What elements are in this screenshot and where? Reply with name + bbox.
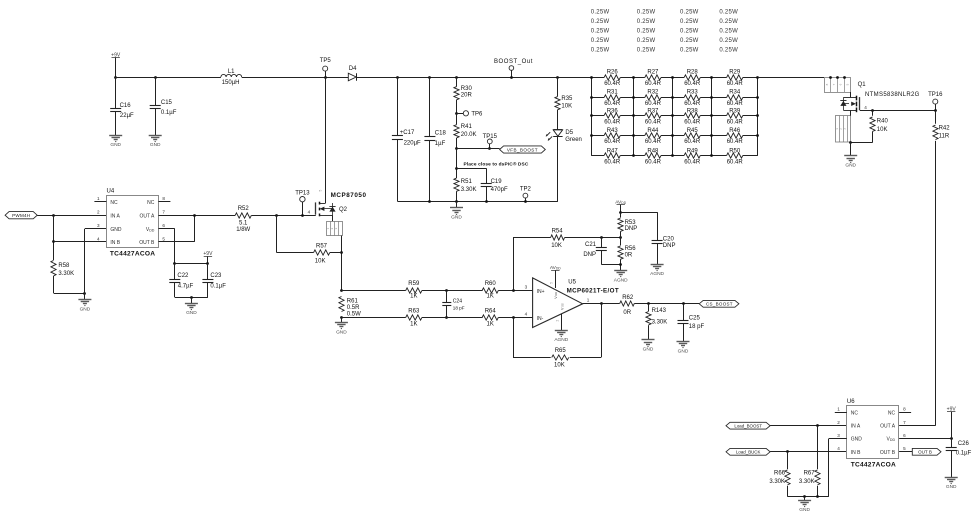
wire R42 down to U6 OUT A	[935, 141, 937, 426]
ground GND feedback network	[456, 201, 458, 208]
svg-text:TP5: TP5	[320, 58, 332, 64]
node shunt bottom junction	[340, 316, 343, 319]
svg-text:OUT B: OUT B	[880, 450, 896, 456]
resistor R65 10K	[552, 355, 569, 360]
ground AGND under U5	[555, 330, 568, 332]
capacitor C19 470pF	[486, 168, 488, 183]
svg-text:0.5R: 0.5R	[347, 305, 360, 311]
svg-text:4: 4	[837, 446, 840, 451]
svg-text:0R: 0R	[625, 252, 633, 258]
svg-text:R34: R34	[729, 90, 741, 96]
svg-text:0R: 0R	[623, 310, 631, 316]
ground GND under U4	[84, 293, 86, 300]
net tag Load_BOOST	[726, 422, 770, 429]
svg-text:NTMS5838NLR2G: NTMS5838NLR2G	[865, 92, 920, 98]
ground GND under R143	[642, 339, 655, 341]
resistor R27 60.4R	[633, 77, 645, 79]
wire +9V rail to L1	[116, 77, 221, 79]
svg-text:R59: R59	[408, 281, 420, 287]
wire U4 VDD supply	[158, 228, 174, 230]
resistor R33 60.4R	[673, 97, 684, 99]
resistor R50 60.4R	[712, 155, 727, 157]
svg-text:AGND: AGND	[554, 337, 568, 343]
ground GND under C16	[109, 135, 122, 137]
op-amp driver U4 TC4427ACOA body	[107, 196, 159, 248]
capacitor C23 0.1uF	[207, 264, 209, 280]
net tag CS_BOOST output	[699, 300, 739, 307]
resistor R58 3.30K	[51, 260, 56, 276]
wire R52 to Q2 gate	[251, 215, 315, 217]
wire Q2 drain to rail	[325, 77, 327, 203]
node TP16 junction	[934, 109, 937, 112]
net tag OUT B output	[899, 451, 912, 453]
capacitor C25 18pF	[683, 304, 685, 321]
body diode of Q2	[329, 207, 335, 212]
capacitor C26 0.1uF	[951, 439, 953, 448]
node shunt top junction	[340, 289, 343, 292]
resistor R67 3.30K	[817, 426, 819, 469]
svg-text:R38: R38	[687, 108, 699, 114]
svg-text:R67: R67	[804, 470, 816, 476]
net tag Load_BUCK	[726, 448, 770, 455]
svg-text:5: 5	[549, 282, 553, 284]
svg-text:IN B: IN B	[110, 240, 120, 246]
svg-text:R30: R30	[461, 86, 473, 92]
node R143 junction	[647, 302, 650, 305]
svg-text:R43: R43	[607, 128, 619, 134]
svg-text:10K: 10K	[561, 104, 572, 110]
wire U4 GND pin	[85, 228, 107, 230]
svg-text:+C17: +C17	[400, 130, 415, 136]
svg-text:Q2: Q2	[339, 207, 348, 213]
svg-text:MCP87050: MCP87050	[331, 192, 367, 199]
resistor R46 60.4R	[712, 135, 727, 137]
svg-text:6: 6	[162, 223, 165, 228]
node C25 junction	[682, 302, 685, 305]
svg-text:1K: 1K	[487, 322, 494, 328]
svg-text:IN+: IN+	[537, 289, 545, 295]
ground GND under shunt	[341, 318, 343, 323]
svg-text:8: 8	[162, 196, 165, 201]
resistor R48 60.4R	[633, 155, 645, 157]
node R35 tap	[556, 76, 559, 79]
svg-text:GND: GND	[851, 437, 863, 443]
svg-text:0.25W: 0.25W	[719, 38, 738, 44]
node C17 tap	[396, 76, 399, 79]
svg-text:TC4427ACOA: TC4427ACOA	[110, 250, 155, 257]
svg-text:0.25W: 0.25W	[591, 38, 610, 44]
capacitor C18 1uF	[429, 77, 431, 136]
svg-text:R45: R45	[687, 128, 699, 134]
svg-text:60.4R: 60.4R	[604, 139, 621, 145]
svg-text:0.25W: 0.25W	[637, 9, 656, 15]
svg-text:2: 2	[555, 319, 559, 321]
node C23 junction	[206, 262, 209, 265]
resistor R36 60.4R	[591, 115, 604, 117]
svg-text:R48: R48	[647, 148, 659, 154]
resistor R63 1K	[406, 315, 422, 320]
resistor R28 60.4R	[673, 77, 684, 79]
wire Load_BUCK to U6 IN B	[770, 451, 847, 453]
resistor R66 3.30K	[787, 452, 789, 469]
svg-text:R143: R143	[652, 308, 667, 314]
svg-text:0.5W: 0.5W	[347, 311, 361, 317]
svg-text:8: 8	[903, 407, 906, 412]
wire resistor bank vertical buses	[591, 77, 593, 156]
wire Q2 source down	[341, 236, 343, 291]
svg-text:5: 5	[162, 236, 165, 241]
svg-text:OUT B: OUT B	[139, 240, 155, 246]
svg-text:NC: NC	[110, 200, 118, 206]
svg-text:5.1: 5.1	[239, 220, 248, 226]
resistor R29 60.4R	[712, 77, 727, 79]
wire Q1 drain	[850, 92, 852, 97]
svg-text:R53: R53	[625, 220, 637, 226]
svg-text:R28: R28	[687, 70, 699, 76]
svg-text:R61: R61	[347, 299, 359, 305]
svg-text:10K: 10K	[551, 243, 562, 249]
resistor R42 11R	[935, 110, 937, 124]
svg-text:R63: R63	[408, 309, 420, 315]
svg-text:60.4R: 60.4R	[727, 160, 744, 166]
svg-text:0.25W: 0.25W	[680, 28, 699, 34]
resistor R51 3.30K	[454, 178, 459, 191]
svg-text:OUT A: OUT A	[139, 213, 155, 219]
svg-text:60.4R: 60.4R	[684, 120, 701, 126]
wire U4 OUT B parallel tie	[158, 241, 194, 243]
resistor R35 10K	[557, 77, 559, 97]
svg-text:R44: R44	[647, 128, 659, 134]
node TP5 / Q2 drain junction	[324, 76, 327, 79]
ground GND under C26	[945, 477, 958, 479]
svg-text:3.30K: 3.30K	[769, 479, 785, 485]
svg-text:0.1µF: 0.1µF	[210, 284, 226, 290]
svg-text:4: 4	[308, 210, 311, 215]
node PWM4H junction	[52, 214, 55, 217]
LED D5 Green	[553, 129, 562, 131]
ground GND decoupling	[191, 297, 193, 303]
node TP6 junction	[455, 112, 458, 115]
Q2 source and body	[319, 215, 332, 217]
resistor R54 10K	[551, 235, 565, 240]
resistor R57 10K	[276, 215, 278, 252]
svg-text:R37: R37	[647, 108, 659, 114]
node VFB junction	[455, 147, 458, 150]
svg-text:20.0K: 20.0K	[461, 132, 477, 138]
wire R54 feedback top	[513, 237, 515, 291]
ground GND load resistors	[804, 497, 806, 501]
svg-text:60.4R: 60.4R	[645, 160, 662, 166]
svg-text:0.25W: 0.25W	[591, 47, 610, 53]
svg-text:TC4427ACOA: TC4427ACOA	[851, 462, 896, 469]
svg-text:0.25W: 0.25W	[680, 9, 699, 15]
svg-text:60.4R: 60.4R	[645, 120, 662, 126]
svg-text:60.4R: 60.4R	[604, 120, 621, 126]
wire U6 VDD to +9V	[899, 438, 951, 440]
transistor Q1 source pin box (pins 1-3)	[836, 116, 851, 143]
node R53/R56/C21 junction	[619, 236, 622, 239]
svg-text:OUT A: OUT A	[880, 424, 896, 430]
wire bank to Q1	[758, 77, 824, 79]
svg-text:R41: R41	[461, 124, 473, 130]
svg-text:1: 1	[837, 407, 840, 412]
svg-text:R52: R52	[238, 206, 250, 212]
resistor R32 60.4R	[633, 97, 645, 99]
svg-text:R58: R58	[58, 263, 70, 269]
node decoupling ground junction	[190, 296, 193, 299]
svg-text:7: 7	[162, 210, 165, 215]
resistor R31 60.4R	[591, 97, 604, 99]
resistor R64 1K	[482, 315, 498, 320]
svg-text:R46: R46	[729, 128, 741, 134]
svg-text:TP6: TP6	[471, 111, 483, 117]
wire R65 feedback	[513, 318, 515, 358]
capacitor C20 DNP	[652, 240, 663, 242]
svg-text:NC: NC	[851, 410, 859, 416]
node IN- junction	[512, 316, 515, 319]
svg-text:R35: R35	[561, 96, 573, 102]
svg-text:1K: 1K	[410, 322, 417, 328]
svg-text:DD: DD	[554, 292, 558, 296]
resistor R38 60.4R	[673, 115, 684, 117]
capacitor C22 4.7uF	[174, 264, 176, 280]
resistor R49 60.4R	[673, 155, 684, 157]
wire load resistor ground bus	[788, 496, 829, 498]
svg-text:Q1: Q1	[858, 82, 867, 88]
resistor R52 5.1 1/8W	[235, 213, 251, 218]
svg-text:0.25W: 0.25W	[680, 47, 699, 53]
svg-text:60.4R: 60.4R	[604, 81, 621, 87]
svg-text:DNP: DNP	[663, 243, 676, 249]
svg-text:DNP: DNP	[583, 252, 596, 258]
svg-text:R56: R56	[625, 246, 637, 252]
wire U6 GND pin path	[829, 438, 847, 440]
resistor R143 3.30K	[648, 304, 650, 311]
svg-text:0.25W: 0.25W	[591, 19, 610, 25]
svg-text:60.4R: 60.4R	[645, 139, 662, 145]
svg-text:470pF: 470pF	[491, 187, 508, 193]
svg-text:60.4R: 60.4R	[684, 160, 701, 166]
resistor R26 60.4R	[591, 77, 604, 79]
svg-text:L1: L1	[228, 69, 235, 75]
svg-text:Place close to dsPIC® DSC: Place close to dsPIC® DSC	[464, 161, 529, 168]
svg-text:R29: R29	[729, 70, 741, 76]
resistor R59 1K	[406, 288, 422, 293]
body diode of Q1	[840, 101, 846, 106]
wire VDD to +9V	[175, 263, 208, 265]
svg-text:3.30K: 3.30K	[652, 319, 668, 325]
svg-text:0.25W: 0.25W	[680, 38, 699, 44]
svg-text:R64: R64	[485, 309, 497, 315]
node AVDD branch junction	[619, 211, 622, 214]
svg-text:R57: R57	[316, 244, 328, 250]
svg-text:0.25W: 0.25W	[637, 19, 656, 25]
svg-text:VDD: VDD	[887, 437, 896, 443]
wire sense line bottom	[341, 317, 405, 319]
svg-text:C16: C16	[120, 103, 132, 109]
svg-text:GND: GND	[186, 310, 197, 316]
svg-text:5: 5	[903, 446, 906, 451]
transistor Q1 drain pin box (pins 5-8)	[825, 78, 851, 93]
node ground bus junctions	[803, 495, 806, 498]
svg-text:C24: C24	[453, 299, 462, 305]
svg-text:IN-: IN-	[537, 316, 544, 322]
svg-text:GND: GND	[678, 348, 689, 354]
svg-text:SS: SS	[560, 303, 564, 307]
node C24 top junction	[445, 289, 448, 292]
svg-text:1µF: 1µF	[435, 141, 446, 147]
svg-text:60.4R: 60.4R	[604, 160, 621, 166]
node R57 source junction	[340, 251, 343, 254]
wire Load_BOOST to U6 IN A	[770, 425, 847, 427]
svg-text:0.1µF: 0.1µF	[956, 451, 972, 457]
wire to IN B and R58	[53, 215, 55, 260]
svg-text:1K: 1K	[410, 293, 417, 299]
svg-text:GND: GND	[643, 347, 654, 353]
svg-text:R39: R39	[729, 108, 741, 114]
U6 pin 1 NC	[835, 412, 847, 414]
capacitor C17 220uF electrolytic	[397, 77, 399, 136]
svg-text:10K: 10K	[315, 258, 326, 264]
svg-text:GND: GND	[799, 507, 810, 513]
svg-text:10K: 10K	[877, 127, 888, 133]
svg-text:TP2: TP2	[520, 187, 532, 193]
U4 pin 1 NC	[94, 201, 106, 203]
node R30 tap	[455, 76, 458, 79]
svg-text:C23: C23	[210, 273, 222, 279]
svg-text:4: 4	[525, 311, 528, 316]
node C15 tap	[154, 76, 157, 79]
svg-text:C22: C22	[177, 273, 189, 279]
svg-text:60.4R: 60.4R	[604, 101, 621, 107]
svg-text:22µF: 22µF	[120, 113, 134, 119]
svg-text:60.4R: 60.4R	[727, 120, 744, 126]
svg-text:Green: Green	[565, 137, 582, 143]
svg-text:60.4R: 60.4R	[727, 101, 744, 107]
wire U6 OUT A up to R42	[899, 425, 935, 427]
svg-text:R60: R60	[485, 281, 497, 287]
svg-text:6: 6	[903, 433, 906, 438]
svg-text:2: 2	[97, 210, 100, 215]
svg-text:NC: NC	[888, 410, 896, 416]
node R57 branch junction	[275, 214, 278, 217]
svg-text:GND: GND	[110, 227, 122, 233]
svg-text:0.25W: 0.25W	[637, 47, 656, 53]
wire VFB to tag	[457, 148, 500, 150]
resistor R60 1K	[482, 288, 498, 293]
U6 pin 8 NC	[899, 412, 911, 414]
svg-text:GND: GND	[110, 142, 121, 148]
node IN B junction	[52, 240, 55, 243]
node R67 branch	[816, 424, 819, 427]
svg-text:4: 4	[97, 236, 100, 241]
svg-text:R49: R49	[687, 148, 699, 154]
ground GND under C25	[677, 341, 690, 343]
resistor R62 0R	[601, 303, 619, 305]
svg-text:GND: GND	[451, 215, 462, 221]
svg-text:R42: R42	[939, 125, 951, 131]
svg-text:OUT B: OUT B	[918, 450, 932, 455]
svg-text:1/8W: 1/8W	[236, 227, 250, 233]
svg-text:C18: C18	[435, 131, 447, 137]
resistor R47 60.4R	[591, 155, 604, 157]
net tag PWM4H input	[5, 212, 37, 219]
svg-text:R33: R33	[687, 90, 699, 96]
svg-text:4: 4	[864, 105, 867, 110]
resistor R41 20.0K	[456, 113, 458, 124]
svg-text:D4: D4	[349, 66, 357, 72]
driver U6 TC4427ACOA body	[847, 406, 899, 459]
svg-text:GND: GND	[845, 163, 856, 169]
svg-text:R31: R31	[607, 90, 619, 96]
node Q1 source ground junction	[849, 141, 852, 144]
test point TP6	[457, 113, 464, 115]
resistor R43 60.4R	[591, 135, 604, 137]
svg-text:0.1µF: 0.1µF	[161, 110, 177, 116]
svg-text:VDD: VDD	[146, 227, 155, 233]
svg-text:150µH: 150µH	[222, 80, 240, 86]
svg-text:C19: C19	[491, 179, 503, 185]
U4 pin 8 NC	[158, 201, 170, 203]
node U4 ground junction	[83, 292, 86, 295]
op-amp U5 MCP6021T-E/OT	[533, 278, 583, 328]
svg-text:TP13: TP13	[295, 190, 310, 196]
svg-text:CS_BOOST: CS_BOOST	[706, 302, 733, 307]
svg-text:R54: R54	[552, 228, 564, 234]
resistor R56 0R	[620, 237, 622, 245]
svg-text:1: 1	[97, 196, 100, 201]
svg-text:4.7µF: 4.7µF	[178, 284, 194, 290]
svg-text:Load_BOOST: Load_BOOST	[734, 424, 762, 429]
svg-text:GND: GND	[80, 306, 91, 312]
svg-text:GND: GND	[150, 142, 161, 148]
svg-text:3: 3	[837, 433, 840, 438]
svg-text:R40: R40	[877, 119, 889, 125]
resistor R40 10K	[872, 110, 874, 116]
svg-text:R32: R32	[647, 90, 659, 96]
resistor R45 60.4R	[673, 135, 684, 137]
svg-text:BOOST_Out: BOOST_Out	[494, 59, 533, 65]
svg-text:GND: GND	[946, 484, 957, 490]
svg-text:10K: 10K	[554, 362, 565, 368]
svg-text:0.25W: 0.25W	[591, 9, 610, 15]
svg-text:3.30K: 3.30K	[799, 479, 815, 485]
resistor R44 60.4R	[633, 135, 645, 137]
capacitor C21 DNP	[600, 236, 603, 239]
svg-text:C26: C26	[958, 441, 970, 447]
node +9V rail junction	[114, 76, 117, 79]
node R40 tap	[871, 109, 874, 112]
wire U5 output	[583, 303, 602, 305]
svg-text:R66: R66	[774, 470, 786, 476]
wire L1 to D4	[242, 77, 349, 79]
svg-text:R36: R36	[607, 108, 619, 114]
svg-text:60.4R: 60.4R	[727, 139, 744, 145]
svg-text:R50: R50	[729, 148, 741, 154]
resistor R61 0.5R 0.5W shunt	[339, 297, 344, 312]
svg-text:220µF: 220µF	[404, 141, 421, 147]
svg-text:U5: U5	[568, 279, 576, 285]
svg-text:IN A: IN A	[110, 213, 120, 219]
svg-text:0.25W: 0.25W	[719, 9, 738, 15]
svg-text:Load_BUCK: Load_BUCK	[736, 450, 760, 455]
transistor Q2 source pin box (pins 1-3)	[332, 216, 334, 222]
svg-text:60.4R: 60.4R	[727, 81, 744, 87]
svg-text:U6: U6	[847, 399, 855, 405]
svg-text:C21: C21	[585, 242, 597, 248]
svg-text:18 pF: 18 pF	[453, 305, 465, 310]
node C18 tap	[428, 76, 431, 79]
